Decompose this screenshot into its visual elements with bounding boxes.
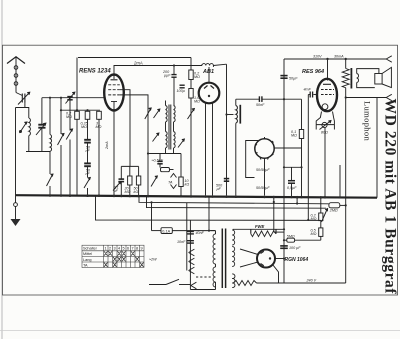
filament wires — [240, 249, 258, 255]
wire antenna to left rail — [16, 103, 25, 108]
wire L1 bottom to bar — [28, 136, 30, 152]
mains terminal — [191, 282, 197, 289]
svg-text:10nF: 10nF — [177, 240, 186, 244]
resistor 1,0 M — [189, 80, 200, 196]
TA pickup terminals — [168, 170, 177, 189]
svg-text:MΩ: MΩ — [96, 125, 102, 129]
node dots on grid wire — [49, 97, 51, 99]
svg-text:kΩ: kΩ — [185, 183, 190, 187]
svg-text:50/50µF: 50/50µF — [256, 186, 270, 190]
antenna — [7, 57, 25, 93]
branch wire y153.5 — [148, 153, 181, 155]
resistor 1 MOhm — [96, 111, 102, 195]
bottom bar of input block — [26, 151, 50, 153]
svg-text:AB1: AB1 — [202, 69, 214, 75]
bottom HT bus 240V — [257, 282, 346, 284]
svg-text:TA: TA — [83, 263, 88, 267]
switch on x148 — [145, 108, 158, 187]
coupling cap 200pF to IF — [162, 64, 177, 105]
wire y167 — [284, 166, 302, 168]
tube RENS 1234 — [104, 75, 124, 111]
svg-text:3: 3 — [114, 247, 116, 251]
selector wire 3 — [96, 196, 321, 221]
selector wire 2 — [147, 196, 327, 208]
top bus B — [284, 58, 387, 60]
wire with 2M resistor — [296, 196, 347, 213]
cathode network of RES964 — [316, 112, 334, 197]
svg-text:Lumophon: Lumophon — [363, 101, 373, 142]
voltage selector taps — [189, 249, 195, 274]
svg-text:6: 6 — [127, 247, 129, 251]
small boxed component — [161, 168, 170, 172]
cap 0,5uF x291.5 — [287, 167, 297, 196]
svg-text:9: 9 — [141, 247, 143, 251]
ground symbol — [11, 195, 21, 226]
anode wire with 2mA — [114, 66, 202, 80]
tuning capacitor (variable) — [36, 98, 46, 152]
svg-text:310V: 310V — [313, 55, 322, 59]
wire to antenna coil — [25, 108, 29, 119]
svg-text:MΩ: MΩ — [66, 115, 72, 119]
svg-text:FWE: FWE — [255, 224, 265, 229]
svg-text:2mA: 2mA — [133, 61, 143, 66]
cap 100pF — [177, 85, 185, 93]
components below on x87: resistor, caps, switch — [84, 119, 91, 195]
left rail wire — [15, 108, 17, 196]
svg-text:WD 220 mit AB 1 Burggraf: WD 220 mit AB 1 Burggraf — [382, 99, 399, 295]
svg-text:50µF: 50µF — [289, 77, 298, 81]
50uF cap on x284 — [280, 76, 298, 81]
resistor 0,3 MOhm — [81, 111, 90, 129]
IF transformer — [153, 101, 185, 154]
svg-text:1: 1 — [105, 247, 107, 251]
switch below L2 — [47, 152, 54, 196]
svg-text:2MΩ: 2MΩ — [329, 209, 338, 213]
anode wire to HT — [275, 258, 284, 260]
svg-text:40nF: 40nF — [196, 231, 205, 235]
svg-text:Schalter: Schalter — [83, 247, 98, 251]
svg-text:RES 964: RES 964 — [302, 69, 324, 75]
5M resistor — [283, 234, 321, 242]
resistor 0,1M to bus — [179, 154, 190, 196]
oscillator coil L2 — [50, 98, 52, 152]
cap on branch — [157, 154, 162, 168]
svg-text:µµF: µµF — [164, 74, 171, 78]
svg-text:100 µF: 100 µF — [289, 246, 301, 250]
svg-text:µF: µF — [217, 187, 222, 191]
right selector lines — [273, 196, 310, 232]
speaker line y97.5 with terminal — [346, 94, 392, 100]
FWE shunt resistor — [251, 224, 276, 237]
antenna trimmer capacitor — [16, 92, 30, 104]
svg-text:100µ: 100µ — [177, 89, 185, 93]
svg-text:RGN 1064: RGN 1064 — [285, 257, 309, 263]
svg-text:≈2W: ≈2W — [149, 258, 157, 262]
svg-text:MΩ: MΩ — [81, 125, 87, 129]
svg-text:nF: nF — [86, 172, 91, 176]
detector line y99 with 50nF — [236, 96, 302, 107]
svg-text:2: 2 — [109, 247, 111, 251]
svg-text:2mA: 2mA — [105, 141, 109, 150]
svg-text:nF: nF — [86, 149, 91, 153]
svg-text:0,1A: 0,1A — [162, 230, 170, 234]
caps 40nF/10nF — [177, 231, 205, 244]
band switch column x58 — [58, 98, 101, 196]
output vertical x345.7 down — [345, 88, 347, 198]
grid wire horizontal — [42, 97, 104, 99]
svg-text:5MΩ: 5MΩ — [287, 234, 295, 238]
main supply vertical x190.4 — [189, 220, 191, 290]
svg-text:4mF: 4mF — [304, 88, 312, 92]
screen resistor 0,2 M — [189, 58, 200, 80]
100uF cap — [280, 246, 301, 250]
AB1 diode coil — [202, 64, 213, 67]
svg-text:7: 7 — [132, 247, 134, 251]
antenna coil L1 — [29, 118, 31, 136]
svg-text:MΩ: MΩ — [194, 100, 200, 104]
svg-text:RENS 1234: RENS 1234 — [79, 69, 111, 75]
output transformer — [342, 58, 379, 89]
can left bracket wire — [246, 141, 259, 178]
choke with core — [225, 99, 240, 195]
junction dots on bus — [49, 194, 327, 198]
wave switch at L1 — [20, 122, 28, 133]
grid bracket cluster — [113, 166, 141, 195]
selector wire 1 — [139, 196, 329, 204]
can bottom wire — [264, 158, 266, 195]
fuse 0,1A — [150, 197, 215, 234]
terminal chevron top right — [386, 56, 392, 59]
svg-text:µF: µF — [114, 189, 119, 193]
power transformer — [190, 229, 235, 290]
grid leak vertical x308 — [307, 95, 309, 220]
svg-text:240 V: 240 V — [306, 279, 317, 283]
rectifier RGN 1064 — [257, 250, 275, 268]
svg-text:Mittel: Mittel — [83, 252, 92, 256]
top bus A — [78, 57, 191, 59]
500pF cap on x227 — [216, 179, 229, 191]
svg-text:kΩ: kΩ — [134, 190, 139, 194]
vertical x284 HT — [283, 59, 285, 283]
svg-text:4: 4 — [118, 247, 120, 251]
svg-text:8: 8 — [136, 247, 138, 251]
grid cap 4mF — [304, 88, 318, 98]
0,5M resistor — [311, 221, 323, 241]
vertical x377 — [376, 98, 378, 198]
svg-text:0,5µF: 0,5µF — [287, 186, 297, 190]
svg-text:MΩ: MΩ — [291, 134, 297, 138]
cathode wire x114 — [113, 108, 115, 195]
border frame — [3, 45, 398, 295]
HT wire from transformer — [233, 228, 284, 231]
heater zigzag to bottom bus — [233, 281, 256, 286]
can right wire — [274, 147, 301, 149]
grid2 extension wire — [120, 95, 148, 195]
RES 964 tube — [317, 58, 337, 111]
vertical x301.5 — [291, 99, 304, 196]
svg-text:MΩ: MΩ — [194, 75, 200, 79]
wire RGN cathode down — [272, 264, 278, 283]
mains switch — [149, 277, 211, 285]
svg-text:MΩ: MΩ — [311, 232, 317, 236]
selector vertical x186.8 — [186, 203, 188, 271]
svg-text:50/50µF: 50/50µF — [256, 168, 270, 172]
switch table — [82, 245, 144, 267]
svg-text:50nF: 50nF — [256, 103, 265, 107]
wire stub x340 — [339, 165, 341, 197]
0,2M variable resistor — [311, 196, 328, 222]
speaker — [375, 67, 392, 87]
svg-text:Lang: Lang — [83, 258, 91, 262]
main ground bus — [16, 195, 378, 198]
scan artifact horizontal line — [0, 330, 400, 332]
svg-text:TA: TA — [168, 181, 173, 185]
scan artifact vertical line — [1, 0, 3, 339]
grid1 extension wire — [120, 90, 130, 167]
svg-text:MΩ: MΩ — [125, 190, 131, 194]
right vertical x345.7 lower — [345, 198, 347, 284]
long vertical x227 — [226, 64, 228, 195]
trimmer capacitor x70 — [66, 92, 75, 195]
svg-text:MΩ: MΩ — [311, 217, 317, 221]
column x78 from top bus — [66, 58, 79, 196]
switch on x191 — [188, 109, 195, 120]
svg-text:5: 5 — [123, 247, 125, 251]
electrolytic can — [255, 137, 274, 160]
AB1 tube — [199, 67, 220, 195]
svg-text:30mA: 30mA — [334, 55, 344, 59]
